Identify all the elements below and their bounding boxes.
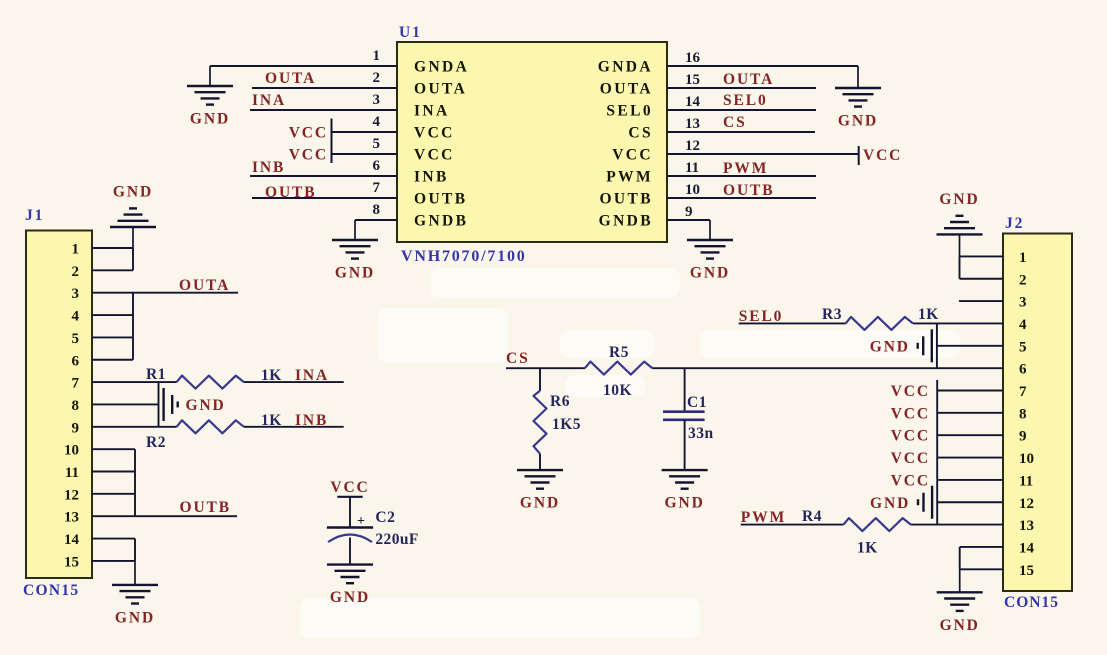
- svg-text:+: +: [357, 514, 365, 529]
- svg-text:CON15: CON15: [23, 582, 79, 599]
- svg-text:VCC: VCC: [891, 383, 930, 400]
- svg-text:GND: GND: [939, 191, 979, 208]
- svg-text:OUTA: OUTA: [179, 277, 230, 294]
- svg-text:OUTB: OUTB: [180, 499, 232, 516]
- svg-text:GND: GND: [870, 495, 910, 512]
- svg-text:GND: GND: [335, 265, 375, 282]
- svg-text:1: 1: [1019, 250, 1027, 266]
- svg-text:7: 7: [72, 376, 80, 392]
- svg-text:R6: R6: [550, 393, 570, 410]
- svg-text:15: 15: [685, 72, 700, 88]
- svg-text:33n: 33n: [688, 425, 714, 442]
- svg-text:VCC: VCC: [289, 147, 328, 164]
- svg-text:OUTB: OUTB: [599, 191, 653, 208]
- svg-text:VCC: VCC: [891, 405, 930, 422]
- svg-text:CON15: CON15: [1004, 594, 1059, 611]
- svg-text:R1: R1: [146, 366, 166, 383]
- svg-text:GNDB: GNDB: [599, 213, 653, 230]
- svg-text:GNDB: GNDB: [414, 213, 468, 230]
- svg-text:INA: INA: [295, 367, 329, 384]
- svg-text:2: 2: [72, 264, 80, 280]
- svg-text:VCC: VCC: [414, 147, 455, 164]
- svg-text:VCC: VCC: [891, 428, 930, 445]
- svg-text:7: 7: [1019, 384, 1027, 400]
- svg-text:J2: J2: [1005, 215, 1024, 232]
- svg-text:GNDA: GNDA: [598, 59, 653, 76]
- svg-text:1K: 1K: [918, 306, 939, 323]
- svg-text:PWM: PWM: [723, 160, 768, 177]
- svg-text:15: 15: [64, 554, 79, 570]
- svg-text:10: 10: [64, 443, 79, 459]
- svg-text:GND: GND: [665, 495, 705, 512]
- svg-text:14: 14: [64, 532, 80, 548]
- svg-text:5: 5: [373, 136, 381, 152]
- svg-text:OUTA: OUTA: [723, 71, 774, 88]
- svg-text:2: 2: [1019, 272, 1027, 288]
- svg-text:VCC: VCC: [414, 125, 455, 142]
- svg-text:INB: INB: [252, 159, 285, 176]
- svg-text:OUTA: OUTA: [600, 81, 653, 98]
- svg-text:PWM: PWM: [741, 509, 786, 526]
- svg-text:VCC: VCC: [863, 147, 902, 164]
- svg-text:GND: GND: [190, 111, 230, 128]
- svg-text:4: 4: [1019, 317, 1027, 333]
- svg-text:8: 8: [373, 202, 381, 218]
- svg-text:C2: C2: [375, 509, 395, 526]
- svg-text:5: 5: [72, 331, 80, 347]
- svg-text:PWM: PWM: [606, 169, 653, 186]
- svg-text:1K: 1K: [261, 412, 282, 429]
- svg-text:GND: GND: [690, 265, 730, 282]
- svg-text:9: 9: [685, 204, 693, 220]
- svg-text:J1: J1: [25, 207, 44, 224]
- svg-text:OUTA: OUTA: [265, 70, 316, 87]
- svg-text:15: 15: [1019, 563, 1034, 579]
- svg-text:16: 16: [685, 50, 701, 66]
- svg-text:GND: GND: [113, 183, 153, 200]
- svg-text:10K: 10K: [603, 382, 632, 399]
- svg-text:U1: U1: [399, 24, 422, 41]
- svg-text:10: 10: [685, 182, 700, 198]
- svg-text:1: 1: [72, 242, 80, 258]
- svg-text:1K: 1K: [261, 367, 282, 384]
- svg-text:CS: CS: [723, 114, 747, 131]
- svg-text:4: 4: [72, 309, 80, 325]
- svg-text:6: 6: [1019, 362, 1027, 378]
- svg-text:13: 13: [685, 116, 700, 132]
- svg-text:3: 3: [373, 92, 381, 108]
- svg-text:11: 11: [1019, 473, 1033, 489]
- svg-text:GND: GND: [838, 113, 878, 130]
- svg-text:OUTB: OUTB: [414, 191, 468, 208]
- svg-text:R2: R2: [146, 434, 166, 451]
- svg-text:1K5: 1K5: [552, 416, 581, 433]
- svg-text:11: 11: [685, 160, 699, 176]
- svg-text:12: 12: [1019, 496, 1034, 512]
- svg-text:SEL0: SEL0: [739, 308, 784, 325]
- svg-text:GND: GND: [520, 495, 560, 512]
- svg-text:INB: INB: [295, 412, 328, 429]
- svg-text:220uF: 220uF: [375, 531, 418, 548]
- svg-text:CS: CS: [506, 350, 530, 367]
- svg-text:10: 10: [1019, 451, 1034, 467]
- svg-text:GNDA: GNDA: [414, 59, 469, 76]
- svg-text:8: 8: [72, 398, 80, 414]
- svg-text:13: 13: [1019, 518, 1034, 534]
- svg-text:12: 12: [64, 487, 79, 503]
- svg-text:GND: GND: [870, 338, 910, 355]
- svg-text:9: 9: [72, 420, 80, 436]
- svg-text:VCC: VCC: [289, 125, 328, 142]
- svg-text:CS: CS: [628, 125, 653, 142]
- svg-text:SEL0: SEL0: [723, 92, 768, 109]
- svg-text:13: 13: [64, 510, 79, 526]
- svg-text:5: 5: [1019, 339, 1027, 355]
- svg-text:14: 14: [1019, 540, 1035, 556]
- svg-text:12: 12: [685, 138, 700, 154]
- svg-text:14: 14: [685, 94, 701, 110]
- svg-text:OUTA: OUTA: [414, 81, 467, 98]
- svg-text:GND: GND: [330, 589, 370, 606]
- svg-text:R5: R5: [609, 344, 629, 361]
- svg-text:INA: INA: [414, 103, 450, 120]
- svg-text:6: 6: [373, 158, 381, 174]
- svg-text:SEL0: SEL0: [606, 103, 653, 120]
- svg-text:1K: 1K: [857, 540, 878, 557]
- svg-text:VCC: VCC: [891, 450, 930, 467]
- svg-text:VCC: VCC: [330, 479, 369, 496]
- svg-text:3: 3: [72, 286, 80, 302]
- svg-text:VCC: VCC: [612, 147, 653, 164]
- svg-text:C1: C1: [687, 394, 707, 411]
- svg-text:VCC: VCC: [891, 472, 930, 489]
- svg-text:OUTB: OUTB: [723, 182, 775, 199]
- svg-text:GND: GND: [115, 609, 155, 626]
- svg-text:VNH7070/7100: VNH7070/7100: [401, 248, 527, 265]
- svg-text:2: 2: [373, 70, 381, 86]
- svg-text:GND: GND: [940, 617, 980, 634]
- svg-text:OUTB: OUTB: [265, 184, 317, 201]
- svg-text:R3: R3: [822, 306, 842, 323]
- svg-text:4: 4: [373, 114, 381, 130]
- svg-text:GND: GND: [186, 397, 226, 414]
- svg-text:8: 8: [1019, 406, 1027, 422]
- svg-text:3: 3: [1019, 295, 1027, 311]
- svg-text:7: 7: [373, 180, 381, 196]
- svg-text:9: 9: [1019, 429, 1027, 445]
- svg-text:1: 1: [373, 48, 381, 64]
- svg-text:R4: R4: [802, 508, 822, 525]
- svg-text:6: 6: [72, 353, 80, 369]
- svg-text:11: 11: [65, 465, 79, 481]
- svg-text:INA: INA: [252, 92, 286, 109]
- svg-text:INB: INB: [414, 169, 449, 186]
